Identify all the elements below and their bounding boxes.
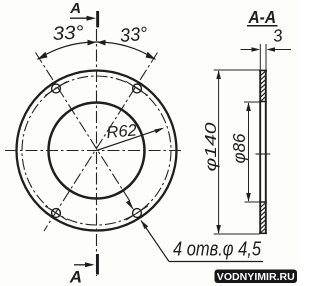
R62 arrowhead — [155, 128, 165, 134]
phi86 top extension line — [244, 101, 260, 103]
arrowhead right arc at centerline — [97, 40, 106, 46]
svg-text:R62: R62 — [106, 121, 138, 142]
tangential centerline at hole top-left — [45, 81, 67, 95]
strip hole bottom boundary — [259, 201, 267, 203]
leader line for holes note — [141, 221, 169, 262]
svg-text:φ86: φ86 — [229, 133, 249, 163]
section strip right edge — [265, 70, 267, 234]
section centerline tick — [256, 153, 271, 155]
svg-text:4 отв.φ 4,5: 4 отв.φ 4,5 — [173, 239, 262, 261]
front view: inner circle phi86 — [49, 103, 145, 199]
tangential centerline at hole top-right — [126, 81, 148, 95]
R62 radial leader line — [97, 128, 163, 150]
horizontal centerline — [5, 150, 181, 152]
phi86 dimension line — [248, 103, 250, 201]
arrowhead on diagonal at bottom-right hole — [126, 200, 134, 210]
svg-text:VODNYIMIR.RU: VODNYIMIR.RU — [217, 272, 295, 283]
svg-text:A: A — [69, 0, 81, 17]
phi140 top extension line — [214, 69, 260, 71]
extension lines above strip — [259, 44, 261, 70]
thickness dim line left part — [241, 49, 259, 51]
arrowhead right arc outer end — [146, 52, 156, 60]
strip bottom edge — [259, 232, 267, 234]
watermark box — [215, 270, 298, 284]
svg-text:33°: 33° — [52, 22, 84, 45]
section plane mark top (thick stroke) — [96, 11, 99, 27]
thickness dim line right part — [268, 49, 291, 51]
leader arrowhead at bottom-right hole — [141, 221, 148, 230]
hatching bottom band — [261, 203, 265, 233]
svg-text:A: A — [69, 267, 82, 286]
hole bottom-left — [52, 209, 61, 218]
tangential centerline at hole bottom-left — [45, 206, 67, 220]
hole bottom-right — [133, 209, 142, 218]
section arrow bottom — [74, 264, 89, 266]
title underline — [247, 25, 278, 27]
phi140 dimension line — [218, 71, 220, 233]
section arrow top — [70, 17, 90, 19]
section plane mark bottom (thick stroke) — [96, 254, 99, 275]
phi140 bottom extension line — [214, 233, 260, 235]
diagonal centerline TR-BL — [44, 53, 158, 232]
tangential centerline at hole bottom-right — [126, 206, 148, 220]
phi86 bottom extension line (covered partly by strip boundary) — [245, 201, 260, 203]
arrowhead left arc at centerline — [88, 40, 97, 46]
svg-text:A-A: A-A — [248, 7, 276, 27]
vertical centerline — [96, 29, 98, 276]
strip hole top boundary — [259, 101, 267, 103]
hatching top band — [261, 71, 265, 101]
hole top-left — [52, 84, 61, 93]
hole top-right — [133, 84, 142, 93]
front view: outer circle phi140 — [17, 71, 177, 231]
svg-text:33°: 33° — [119, 24, 149, 47]
33deg dimension arc left — [37, 42, 96, 59]
svg-text:3: 3 — [272, 26, 285, 46]
strip top edge — [259, 69, 267, 71]
arrowhead left arc outer end — [37, 52, 47, 60]
section strip left edge — [259, 70, 261, 234]
33deg dimension arc right — [97, 42, 156, 59]
bolt circle R62 dash-dot — [22, 76, 171, 225]
diagonal centerline TL-BR — [36, 53, 132, 204]
svg-text:φ140: φ140 — [203, 122, 220, 171]
